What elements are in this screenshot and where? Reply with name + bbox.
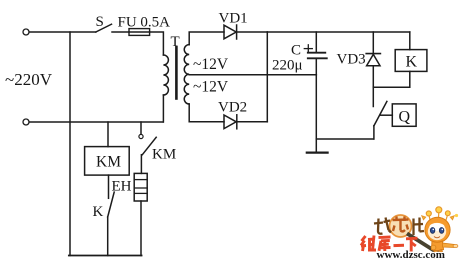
watermark logo dzsc: [361, 207, 458, 261]
wire secondary top to VD1: [189, 32, 224, 45]
mascot body: [432, 241, 444, 251]
svg-text:C: C: [291, 43, 301, 59]
svg-text:~220V: ~220V: [5, 70, 53, 89]
contact KM blade: [142, 137, 156, 154]
mascot head hood: [425, 217, 450, 242]
mascot brow: [429, 223, 444, 231]
wire VD3 top: [372, 32, 374, 54]
mascot face: [428, 223, 446, 240]
terminal top-left: [23, 29, 29, 35]
contact KM pivot: [139, 134, 143, 138]
svg-text:KM: KM: [152, 147, 176, 163]
wire riser VD2 to top rail: [266, 32, 268, 122]
svg-text:~12V: ~12V: [193, 56, 229, 73]
wire VD1 to junction: [237, 31, 268, 33]
svg-text:K: K: [93, 204, 104, 220]
wire switch to fuse: [112, 31, 129, 33]
wire blade bottom: [373, 126, 375, 139]
wire primary bottom: [162, 95, 164, 122]
svg-text:T: T: [171, 34, 180, 50]
wire top AC: [29, 31, 96, 33]
node junction left vertical top: [69, 32, 71, 256]
wire 0V down: [315, 75, 317, 153]
wire EH to bottom rail: [140, 201, 142, 256]
plus sign of capacitor: [304, 48, 312, 50]
svg-text:~12V: ~12V: [193, 79, 229, 96]
wire KM contact feed: [140, 122, 142, 134]
mascot crown stems: [422, 207, 454, 220]
char wei: [361, 236, 376, 252]
char xia: [406, 238, 418, 251]
heater EH: [134, 173, 147, 201]
wire blade to Q box: [380, 114, 393, 116]
char ku: [379, 237, 391, 251]
svg-text:VD3: VD3: [337, 52, 366, 68]
relay coil box KM: [85, 147, 130, 176]
wire top rail right: [267, 31, 410, 33]
char yi: [394, 244, 405, 247]
magnifier circle: [390, 215, 412, 237]
wire secondary bottom to VD2: [189, 104, 224, 122]
char zhao: [374, 218, 391, 234]
contact blade Q switch: [374, 101, 387, 125]
transformer T primary winding: [163, 55, 168, 95]
svg-text:K: K: [406, 54, 418, 71]
svg-text:220μ: 220μ: [272, 58, 303, 74]
wire top rail into K box: [409, 32, 411, 50]
wire contact fixed: [372, 87, 374, 106]
wire blade to EH: [140, 155, 142, 174]
terminal bottom-left: [23, 119, 29, 125]
transformer secondary winding: [184, 45, 189, 104]
fuse FU 0.5A: [129, 29, 150, 36]
svg-text:VD1: VD1: [219, 11, 248, 27]
wire KM box bottom: [108, 175, 110, 198]
char pian: [414, 218, 425, 236]
svg-text:www.dzsc.com: www.dzsc.com: [377, 249, 445, 261]
wire bottom rail: [69, 255, 142, 257]
diode VD3: [366, 53, 380, 55]
box Q: [392, 104, 416, 126]
svg-text:VD2: VD2: [218, 100, 247, 116]
diode VD1: [224, 25, 236, 39]
switch S: [96, 24, 112, 32]
diode VD2: [224, 115, 236, 129]
char xin inside circle: [393, 217, 409, 232]
mascot eyes: [430, 228, 435, 234]
svg-text:S: S: [96, 14, 104, 30]
svg-text:Q: Q: [399, 109, 411, 126]
wire 0V branch right: [316, 138, 373, 140]
mascot hand on stick: [431, 245, 436, 250]
mascot hand paddle: [453, 244, 458, 247]
weiku yixia red characters: [361, 236, 418, 252]
svg-text:EH: EH: [112, 179, 132, 195]
sparkle: [455, 214, 458, 217]
ground bar: [307, 152, 328, 154]
mascot legs: [434, 251, 438, 259]
mascot mouth: [434, 237, 440, 238]
capacitor C 220u: [315, 32, 317, 52]
wire center tap rail: [189, 74, 316, 76]
relay box K: [395, 50, 427, 72]
wire K contact to bottom rail: [107, 217, 109, 256]
wire KM coil feed: [107, 122, 109, 147]
wire K coil bottom: [373, 71, 410, 87]
svg-text:KM: KM: [96, 154, 121, 171]
transformer core: [175, 47, 178, 99]
wire bottom AC: [29, 121, 163, 123]
wire fuse to transformer: [150, 32, 164, 55]
wire VD2 to riser: [237, 121, 267, 123]
magnifier handle: [407, 234, 438, 254]
svg-text:FU 0.5A: FU 0.5A: [118, 15, 171, 31]
mascot right arm: [443, 243, 455, 248]
contact K blade: [108, 192, 115, 217]
